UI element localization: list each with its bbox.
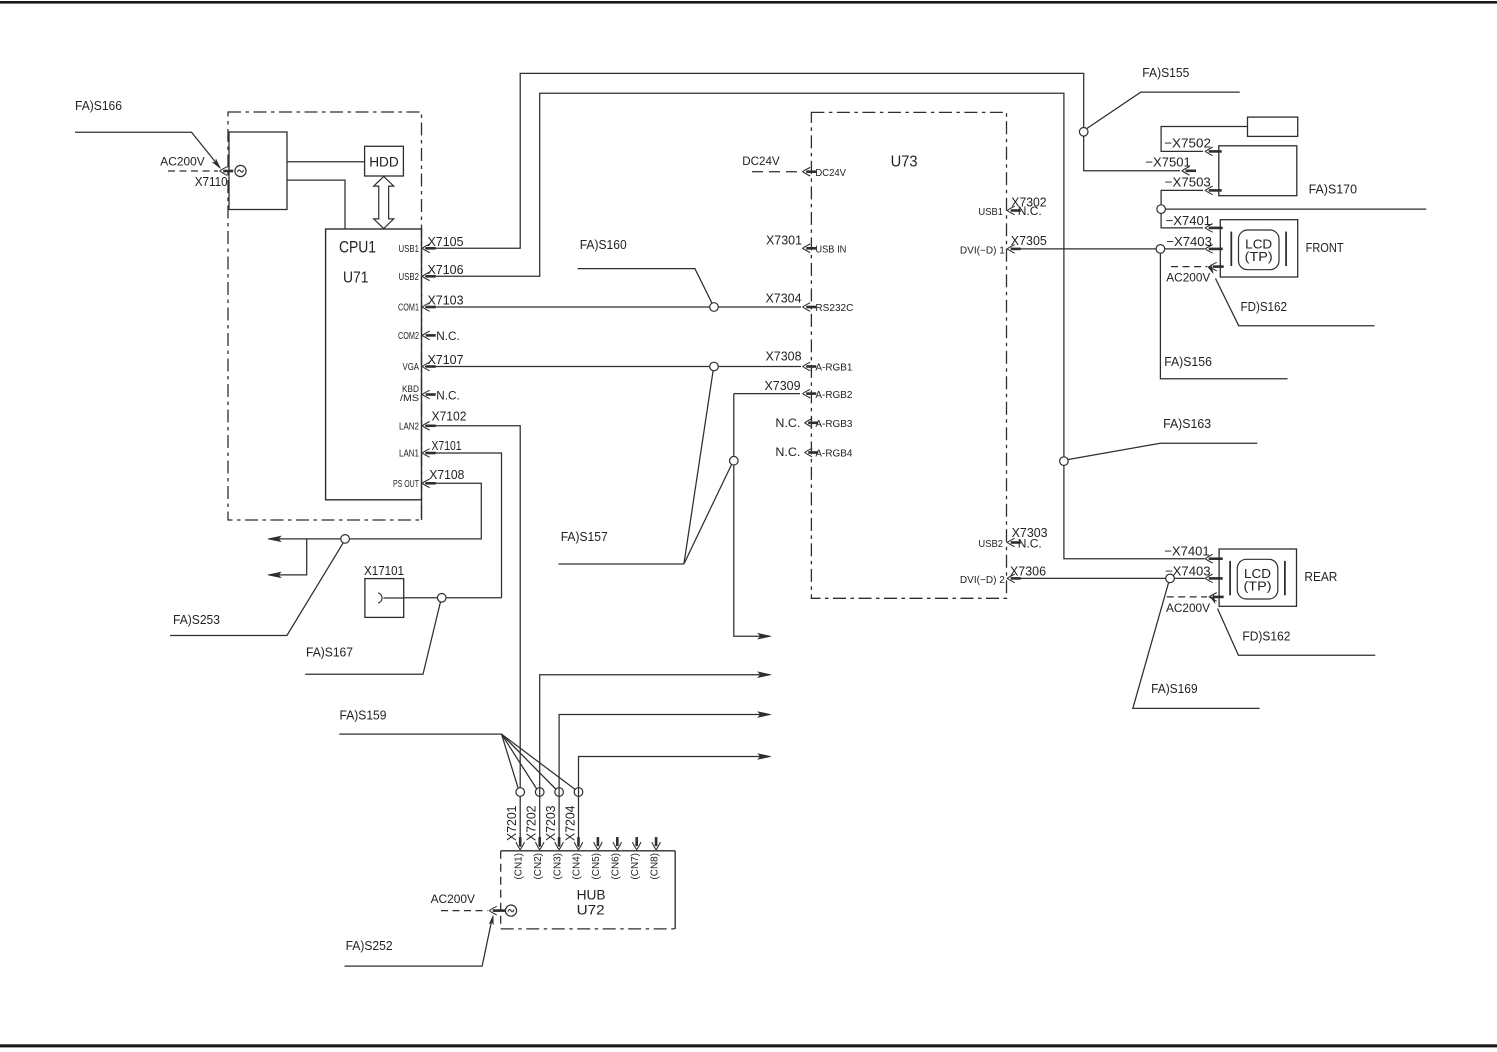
svg-text:COM2: COM2: [398, 331, 419, 342]
svg-text:X17101: X17101: [364, 563, 404, 578]
svg-text:PS OUT: PS OUT: [393, 479, 419, 490]
label X7103: [428, 293, 464, 308]
svg-text:−X7403: −X7403: [1165, 563, 1211, 578]
svg-text:DC24V: DC24V: [742, 154, 780, 168]
junction FA)S155 circle: [1079, 128, 1088, 137]
svg-text:USB1: USB1: [978, 207, 1003, 218]
svg-text:X7108: X7108: [429, 467, 464, 482]
wire power supply to CPU1: [287, 180, 345, 229]
callout FA)S159: [339, 707, 501, 734]
junction FA)S157 circle lower: [730, 456, 739, 465]
svg-text:X7201: X7201: [504, 806, 519, 842]
svg-text:(CN4): (CN4): [572, 853, 583, 880]
junction FA)S160 circle: [710, 303, 719, 312]
svg-text:FA)S156: FA)S156: [1164, 354, 1212, 369]
svg-text:AC200V: AC200V: [1166, 601, 1210, 615]
svg-text:COM1: COM1: [398, 303, 419, 314]
junction FA)S163 circle: [1060, 457, 1069, 466]
svg-text:A-RGB4: A-RGB4: [815, 449, 852, 460]
wire USB2 X7106 to REAR X7401: [425, 93, 1205, 558]
svg-text:FA)S169: FA)S169: [1151, 681, 1198, 696]
svg-text:X7102: X7102: [432, 408, 467, 423]
svg-text:FA)S252: FA)S252: [346, 938, 393, 953]
svg-text:−X7501: −X7501: [1145, 155, 1190, 170]
double arrow HDD to CPU1: [374, 177, 394, 229]
wire VGA X7107 to A-RGB1 X7308: [425, 366, 801, 368]
svg-text:(CN7): (CN7): [630, 853, 641, 880]
svg-text:FA)S155: FA)S155: [1142, 65, 1189, 80]
svg-text:X7305: X7305: [1011, 233, 1047, 248]
callout FA)S167: [305, 602, 440, 675]
small box above X7502: [1248, 117, 1298, 136]
svg-text:FA)S157: FA)S157: [561, 529, 608, 544]
svg-text:A-RGB2: A-RGB2: [815, 390, 852, 401]
wire DVI1 X7305 to FRONT X7403: [1017, 248, 1205, 250]
svg-text:(TP): (TP): [1245, 250, 1273, 264]
wire PS OUT X7108 off-page: [268, 483, 481, 541]
junction FA)S157 circle upper: [710, 362, 719, 371]
callout FA)S156: [1160, 253, 1287, 379]
svg-text:(CN1): (CN1): [513, 853, 524, 880]
label X7102: [432, 408, 467, 423]
svg-text:N.C.: N.C.: [1018, 204, 1042, 218]
svg-text:FA)S159: FA)S159: [340, 707, 387, 722]
pin USB IN X7301: [766, 232, 846, 255]
svg-text:X7101: X7101: [432, 438, 462, 453]
FA)S159 fan line 4: [502, 734, 575, 789]
AC200V dashed wire to X7110: [168, 170, 218, 172]
label X7201 rotated: [504, 806, 519, 842]
svg-text:AC200V: AC200V: [160, 155, 204, 169]
pin USB1 X7302 N.C.: [978, 195, 1046, 218]
svg-text:−X7502: −X7502: [1164, 136, 1211, 151]
pin FRONT X7403: [1166, 234, 1222, 253]
callout FA)S252: [345, 915, 496, 966]
svg-text:X7204: X7204: [562, 806, 577, 842]
svg-text:(CN5): (CN5): [591, 853, 602, 880]
svg-text:X7106: X7106: [428, 262, 464, 277]
wire LAN2 X7102 to HUB CN1: [425, 426, 520, 847]
AC200V label at X7110: [160, 155, 204, 169]
AC200V dashed wire to HUB: [441, 910, 488, 912]
CPU1 port pins and labels: [393, 244, 436, 490]
svg-text:USB IN: USB IN: [815, 245, 846, 256]
svg-text:FA)S253: FA)S253: [173, 612, 220, 627]
wire X7202 off-page to HUB CN2: [540, 672, 771, 847]
connector box X17101: [364, 563, 404, 617]
junction FA)S169 circle: [1166, 574, 1175, 583]
junction circle X7203: [555, 788, 564, 797]
svg-text:X7105: X7105: [428, 234, 464, 249]
AC200V dashed wire FRONT: [1171, 266, 1207, 268]
HDD box: [365, 146, 404, 176]
callout FA)S163: [1068, 416, 1258, 460]
svg-text:FRONT: FRONT: [1306, 240, 1344, 255]
svg-text:USB2: USB2: [978, 539, 1003, 550]
svg-text:USB2: USB2: [399, 272, 420, 283]
label X7106: [428, 262, 464, 277]
svg-text:LAN2: LAN2: [399, 421, 419, 432]
wire X7203 off-page to HUB CN3: [559, 712, 771, 847]
AC source symbol in power supply: [235, 165, 246, 176]
svg-text:FD)S162: FD)S162: [1242, 629, 1290, 644]
svg-text:U72: U72: [577, 902, 605, 918]
wire small box to X7502: [1161, 127, 1247, 152]
power supply box in CPU unit: [229, 132, 287, 210]
pin REAR X7403: [1165, 563, 1223, 582]
junction FA)S253 circle: [341, 535, 350, 544]
callout FA)S166: [75, 98, 222, 170]
pin DVI(-D)1 X7305: [960, 233, 1047, 256]
AC200V dashed wire REAR: [1167, 596, 1207, 598]
svg-text:(CN3): (CN3): [552, 853, 563, 880]
svg-text:VGA: VGA: [403, 362, 420, 373]
svg-text:N.C.: N.C.: [436, 329, 460, 343]
label X7108: [429, 467, 464, 482]
page bottom border line: [0, 1044, 1497, 1047]
wire A-RGB2 X7309 off-page: [734, 394, 771, 639]
svg-text:FA)S166: FA)S166: [75, 98, 122, 113]
svg-text:X7301: X7301: [766, 232, 802, 247]
svg-text:FA)S160: FA)S160: [580, 237, 627, 252]
speaker box right: [1219, 146, 1297, 196]
svg-text:−X7401: −X7401: [1164, 544, 1209, 559]
pin X7503: [1165, 175, 1222, 195]
svg-text:U73: U73: [891, 154, 918, 171]
pin DVI(-D)2 X7306: [960, 563, 1046, 586]
svg-text:(CN8): (CN8): [649, 853, 660, 880]
svg-text:AC200V: AC200V: [431, 892, 475, 906]
pin X7502: [1164, 136, 1222, 156]
label X7105: [428, 234, 464, 249]
svg-text:X7309: X7309: [765, 378, 801, 393]
svg-text:REAR: REAR: [1304, 569, 1337, 584]
wire to FRONT X7401: [1161, 213, 1203, 228]
svg-text:X7304: X7304: [766, 291, 802, 306]
callout FD)S162 FRONT: [1207, 264, 1374, 325]
svg-text:A-RGB1: A-RGB1: [815, 363, 852, 374]
svg-text:DVI(−D) 2: DVI(−D) 2: [960, 575, 1005, 586]
U73 dashed box: [811, 112, 1006, 598]
wire FA)S170 off-page: [1165, 208, 1426, 210]
pin A-RGB3 N.C.: [775, 416, 852, 430]
callout FA)S160: [578, 237, 712, 303]
svg-text:FD)S162: FD)S162: [1241, 299, 1287, 314]
junction FA)S156 circle: [1156, 245, 1165, 254]
wire COM1 X7103 to RS232C X7304: [425, 306, 801, 308]
AC source symbol in HUB: [505, 905, 516, 916]
DC24V dashed wire: [752, 171, 800, 173]
label N.C. COM2: [436, 329, 460, 343]
pin DC24V: [803, 167, 847, 179]
wire USB1 X7105 to X7501: [425, 73, 1180, 248]
pin X7501: [1145, 155, 1196, 176]
svg-text:X7203: X7203: [543, 806, 558, 842]
FA)S159 fan line 3: [502, 734, 556, 789]
pin USB2 X7303 N.C.: [978, 525, 1047, 550]
socket symbol in X17101: [378, 593, 404, 603]
svg-text:/MS: /MS: [400, 393, 419, 404]
svg-text:FA)S163: FA)S163: [1163, 416, 1211, 431]
junction FA)S167 circle: [437, 594, 446, 603]
label X7204 rotated: [562, 806, 577, 842]
svg-text:X7103: X7103: [428, 293, 464, 308]
junction circle X7202: [535, 788, 544, 797]
HUB CN pin arrows: [516, 837, 660, 850]
REAR LCD box: [1219, 549, 1337, 606]
connector X7110: [195, 167, 234, 189]
junction FA)S159 circle CN1: [516, 788, 525, 797]
svg-text:N.C.: N.C.: [1018, 536, 1042, 550]
pin FRONT AC200V: [1166, 262, 1223, 284]
svg-text:X7306: X7306: [1010, 563, 1046, 578]
svg-text:LAN1: LAN1: [399, 449, 419, 460]
callout FA)S169: [1133, 583, 1260, 709]
DC24V label outside: [742, 154, 780, 168]
svg-text:N.C.: N.C.: [775, 445, 800, 459]
label X7202 rotated: [524, 806, 539, 842]
svg-text:X7202: X7202: [524, 806, 539, 842]
svg-text:N.C.: N.C.: [436, 388, 460, 402]
svg-text:HUB: HUB: [577, 887, 606, 903]
CPU1 box: [326, 229, 422, 520]
label X7203 rotated: [543, 806, 558, 842]
label X7107: [428, 352, 464, 367]
svg-text:X7107: X7107: [428, 352, 464, 367]
pin RS232C X7304: [766, 291, 854, 315]
svg-text:DVI(−D) 1: DVI(−D) 1: [960, 245, 1005, 256]
wire X17101 to LAN1: [404, 597, 502, 599]
svg-text:X7308: X7308: [766, 349, 802, 364]
page top border line: [0, 1, 1497, 4]
svg-text:FA)S167: FA)S167: [306, 645, 353, 660]
wire A-RGB2 stub: [734, 393, 800, 395]
pin X7503 wire: [1161, 190, 1203, 205]
svg-text:−X7503: −X7503: [1165, 175, 1211, 190]
junction circle X7204: [574, 788, 583, 797]
label X7101: [432, 438, 462, 453]
callout FA)S157: [558, 371, 731, 564]
svg-text:U71: U71: [343, 270, 369, 287]
svg-text:CPU1: CPU1: [339, 238, 376, 257]
svg-text:−X7403: −X7403: [1166, 234, 1212, 249]
pin A-RGB2 X7309: [765, 378, 853, 401]
pin A-RGB1 X7308: [766, 349, 853, 374]
wire PS OUT branch off-page: [268, 539, 307, 578]
junction circle X7503/X7401: [1157, 205, 1166, 214]
wire power supply to HDD: [287, 161, 365, 163]
HUB U72 dashed box: [501, 851, 676, 929]
wire LAN1 X7101 to X17101: [425, 453, 502, 598]
svg-text:−X7401: −X7401: [1166, 213, 1211, 228]
svg-text:RS232C: RS232C: [815, 303, 853, 314]
pin FRONT X7401: [1166, 213, 1223, 232]
svg-text:HDD: HDD: [369, 153, 399, 169]
label N.C. KBD: [436, 388, 460, 402]
svg-text:AC200V: AC200V: [1166, 271, 1210, 285]
callout FA)S253: [170, 543, 343, 636]
pin REAR X7401: [1164, 544, 1222, 563]
FRONT LCD box: [1220, 220, 1343, 277]
pin A-RGB4 N.C.: [775, 445, 852, 460]
svg-text:FA)S170: FA)S170: [1309, 182, 1357, 197]
svg-text:(TP): (TP): [1244, 580, 1272, 594]
wire X7204 off-page to HUB CN4: [579, 754, 772, 847]
CPU unit dashed enclosure: [228, 112, 422, 520]
label FA)S170: [1309, 182, 1357, 197]
connector pin AC200V HUB: [489, 906, 506, 915]
FA)S159 fan line 1: [502, 734, 519, 788]
HUB CN1-CN8 labels: [513, 853, 660, 880]
svg-text:DC24V: DC24V: [815, 168, 846, 179]
pin REAR AC200V: [1166, 593, 1224, 615]
callout FA)S155: [1087, 65, 1240, 128]
svg-text:N.C.: N.C.: [775, 416, 800, 430]
svg-text:A-RGB3: A-RGB3: [815, 419, 852, 430]
svg-text:(CN2): (CN2): [533, 853, 544, 880]
wire DVI2 X7306 to REAR X7403: [1017, 577, 1205, 579]
callout FD)S162 REAR: [1210, 594, 1376, 655]
AC200V label at HUB: [431, 892, 475, 906]
svg-text:X7110: X7110: [195, 174, 228, 189]
svg-text:USB1: USB1: [399, 244, 420, 255]
FA)S159 fan line 2: [502, 734, 537, 789]
svg-text:(CN6): (CN6): [611, 853, 622, 880]
